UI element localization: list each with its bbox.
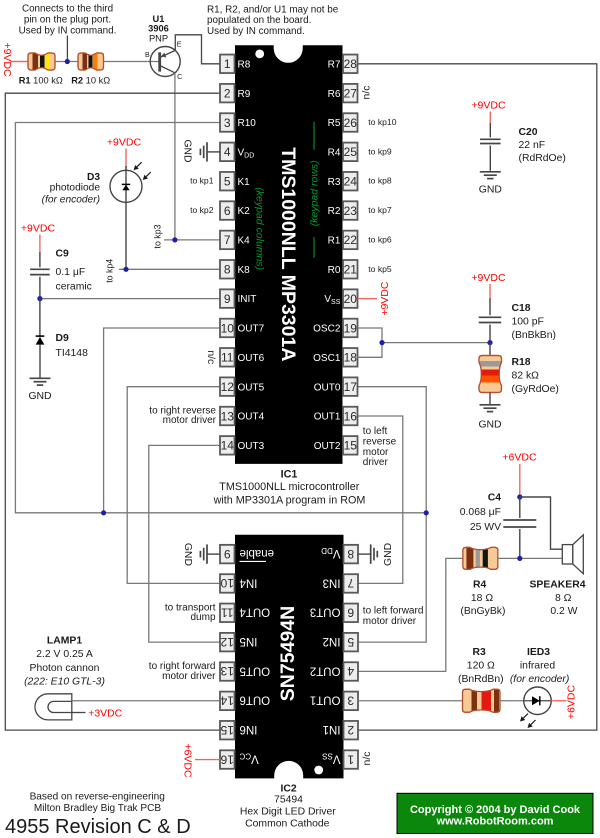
svg-text:pin on the plug port.: pin on the plug port.: [24, 15, 111, 26]
wire node to speaker top: [520, 497, 563, 549]
svg-text:to left: to left: [363, 426, 388, 437]
wire IC2 pin4 OUT2 to R4: [358, 558, 463, 671]
svg-text:IN3: IN3: [323, 576, 341, 588]
IC1 pin 1 R8: [220, 55, 251, 74]
svg-text:GND: GND: [182, 543, 193, 566]
svg-text:5: 5: [347, 635, 354, 649]
C18 value label: [512, 303, 556, 341]
svg-text:R18: R18: [512, 357, 531, 368]
svg-text:IN6: IN6: [240, 723, 258, 735]
ground (D9): [28, 378, 51, 402]
IC1 pin 26 R5: [328, 113, 358, 132]
svg-text:+9VDC: +9VDC: [471, 100, 506, 112]
svg-text:GND: GND: [478, 420, 501, 431]
IC2 label: [240, 783, 336, 829]
svg-text:IED3: IED3: [527, 647, 550, 658]
svg-text:K8: K8: [238, 265, 251, 276]
IC1 pin 11 OUT6: [220, 348, 265, 367]
svg-text:R6: R6: [328, 89, 341, 100]
svg-text:(BnBkBn): (BnBkBn): [512, 330, 556, 341]
svg-text:to kp4: to kp4: [105, 259, 115, 283]
svg-text:21: 21: [344, 263, 358, 277]
IC1 pin 17 OUT0: [314, 377, 358, 396]
svg-text:www.RobotRoom.com: www.RobotRoom.com: [436, 816, 554, 828]
IC2 pin 5 IN2: [323, 633, 358, 652]
note: reverse engineering credit: [30, 791, 165, 814]
wire lamp to +3VDC: [72, 712, 86, 714]
IC2 pin 16 VCC: [220, 750, 259, 769]
svg-text:motor driver: motor driver: [163, 415, 217, 426]
svg-text:OUT0: OUT0: [314, 382, 341, 393]
svg-text:14: 14: [221, 439, 235, 453]
wire IC1 pin14 OUT3 to IC2 pin12 IN5: [149, 445, 220, 642]
svg-text:ceramic: ceramic: [56, 282, 92, 293]
svg-text:Connects to the third: Connects to the third: [22, 3, 113, 14]
svg-text:IC2: IC2: [281, 783, 297, 794]
svg-text:10: 10: [221, 321, 235, 335]
svg-text:motor: motor: [363, 447, 389, 458]
svg-text:5: 5: [224, 175, 231, 189]
IC2 pin 13 OUT5: [220, 662, 270, 681]
svg-text:TMS1000NLL MP3301A: TMS1000NLL MP3301A: [277, 147, 299, 361]
svg-text:OUT1: OUT1: [314, 412, 341, 423]
svg-text:0.068 μF: 0.068 μF: [460, 507, 501, 518]
ground (C20): [479, 172, 502, 196]
note to left forward motor driver (IC2 pin 6): [363, 605, 424, 626]
IC1 pin 15 OUT2: [314, 436, 358, 455]
svg-text:(GyRdOe): (GyRdOe): [512, 384, 559, 395]
svg-text:B: B: [145, 52, 150, 59]
wire IC1 pin16 OUT1 to IC2 pin7 IN3: [358, 416, 403, 583]
svg-text:22: 22: [344, 233, 358, 247]
note to transport dump (IC2 pin 11): [165, 602, 216, 623]
wire R3 to IED3: [500, 700, 524, 702]
wire IC1 pin17 OUT0 to IC2 pin5 IN2: [358, 387, 427, 642]
svg-text:OUT3: OUT3: [238, 441, 265, 452]
resistor R2: [78, 53, 104, 70]
R2 value label: [71, 75, 110, 85]
IC1 pin 24 R3: [328, 172, 358, 191]
IC1 pin 19 OSC2: [313, 319, 357, 338]
IC1 pin 16 OUT1: [314, 407, 358, 426]
svg-text:PNP: PNP: [149, 33, 168, 43]
capacitor C9: [30, 269, 50, 274]
svg-text:3: 3: [347, 694, 354, 708]
svg-text:GND: GND: [181, 139, 192, 162]
svg-text:15: 15: [220, 723, 234, 737]
svg-text:IC1: IC1: [281, 468, 298, 480]
svg-text:K1: K1: [238, 177, 251, 188]
svg-text:22 nF: 22 nF: [519, 140, 546, 151]
svg-text:to kp2: to kp2: [190, 205, 214, 215]
svg-text:D3: D3: [87, 172, 100, 183]
ground (R18): [478, 405, 501, 431]
svg-text:U1: U1: [153, 14, 165, 24]
wire IC1 pin3 R10 to bus: [15, 123, 426, 513]
svg-text:R3: R3: [473, 647, 487, 658]
svg-text:3: 3: [224, 116, 231, 130]
C9 value label: [56, 249, 92, 293]
svg-text:n/c: n/c: [362, 752, 373, 766]
svg-text:+9VDC: +9VDC: [21, 223, 56, 235]
svg-text:to kp8: to kp8: [368, 176, 392, 186]
svg-text:R4: R4: [473, 580, 487, 591]
svg-text:to kp5: to kp5: [368, 264, 392, 274]
svg-text:75494: 75494: [274, 795, 303, 806]
IC1 pin 25 R4: [328, 143, 358, 162]
IC2 pin 15 IN6: [220, 721, 257, 740]
U1 label: [148, 14, 169, 44]
svg-text:C: C: [177, 74, 182, 81]
svg-text:to kp10: to kp10: [368, 117, 396, 127]
wire node to R18: [489, 343, 491, 356]
IC1 pin 5 K1: [220, 172, 250, 191]
svg-text:n/c: n/c: [205, 350, 216, 364]
svg-text:R5: R5: [328, 118, 341, 129]
svg-text:dump: dump: [190, 612, 215, 623]
wire OSC bracket pins 18/19: [358, 328, 491, 357]
wire U1 collector down to kp3 node: [174, 73, 176, 240]
R18 value label: [512, 357, 559, 395]
svg-text:13: 13: [221, 409, 235, 423]
svg-text:2.2 V 0.25 A: 2.2 V 0.25 A: [36, 649, 93, 660]
svg-text:23: 23: [344, 204, 358, 218]
wire +9VDC to D3: [125, 149, 127, 171]
note to right reverse motor driver (IC1 pin 13): [149, 406, 216, 427]
svg-text:motor driver: motor driver: [162, 671, 216, 682]
svg-text:INIT: INIT: [238, 294, 257, 305]
IC1 pin 21 R0: [328, 260, 358, 279]
svg-text:+6VDC: +6VDC: [182, 743, 194, 778]
svg-text:25: 25: [344, 145, 358, 159]
photodiode D3: [110, 162, 151, 270]
svg-text:24: 24: [344, 175, 358, 189]
svg-text:26: 26: [344, 116, 358, 130]
R1 value label: [19, 75, 63, 85]
IC2 pin 11 OUT4: [220, 604, 270, 623]
svg-text:Used by IN command.: Used by IN command.: [207, 26, 305, 37]
svg-text:GND: GND: [28, 391, 51, 402]
svg-text:120 Ω: 120 Ω: [467, 660, 495, 671]
svg-text:C9: C9: [56, 249, 70, 260]
IC2 pin 8 VDD: [321, 545, 358, 564]
node R4/C4/speaker: [517, 556, 522, 561]
svg-text:Based on reverse-engineering: Based on reverse-engineering: [30, 791, 165, 802]
wire +9VDC stub (IC1 pin 20 VSS): [358, 298, 378, 300]
resistor R4: [463, 547, 498, 569]
svg-text:IN1: IN1: [323, 723, 341, 735]
svg-text:19: 19: [344, 321, 358, 335]
C20 value label: [519, 127, 566, 164]
D3 label: [42, 172, 101, 206]
svg-text:R3: R3: [328, 177, 341, 188]
svg-text:R1 100 kΩ: R1 100 kΩ: [19, 75, 63, 85]
svg-text:OSC1: OSC1: [313, 353, 341, 364]
svg-text:SN75494N: SN75494N: [277, 606, 299, 701]
wire node to D9: [39, 299, 41, 336]
svg-text:R10: R10: [238, 118, 257, 129]
note: plug-port annotation: [19, 3, 117, 36]
svg-text:C20: C20: [519, 127, 538, 138]
node C9/D9/INIT: [37, 296, 42, 301]
svg-text:(for encoder): (for encoder): [42, 194, 100, 205]
svg-text:OUT2: OUT2: [314, 441, 341, 452]
node kp4 / wire D3 to IC1 pin 8: [119, 267, 220, 272]
svg-text:D9: D9: [56, 333, 70, 344]
svg-text:8 Ω: 8 Ω: [555, 593, 572, 604]
IC2 pin 9 enable: [220, 545, 274, 564]
resistor R18: [479, 356, 502, 393]
svg-text:infrared: infrared: [520, 660, 555, 671]
wire +9VDC to C20: [489, 112, 491, 138]
svg-text:OSC2: OSC2: [313, 324, 341, 335]
wire R18 to ground: [489, 393, 491, 405]
svg-text:20: 20: [344, 292, 358, 306]
resistor R1: [28, 53, 55, 70]
svg-text:4955 Revision C & D: 4955 Revision C & D: [5, 816, 191, 838]
svg-text:11: 11: [221, 351, 234, 365]
svg-text:12: 12: [221, 380, 235, 394]
svg-text:IN2: IN2: [323, 635, 341, 647]
wire +9VDC to C18: [489, 284, 491, 315]
svg-text:+9VDC: +9VDC: [1, 42, 13, 77]
svg-text:+3VDC: +3VDC: [88, 708, 122, 719]
svg-text:R8: R8: [238, 59, 251, 70]
svg-text:OUT5: OUT5: [238, 382, 265, 393]
IC2 SN75494N hex digit LED driver body: [235, 535, 344, 779]
svg-text:OUT5: OUT5: [240, 664, 271, 676]
svg-text:82 kΩ: 82 kΩ: [512, 370, 540, 381]
capacitor C20: [480, 139, 501, 171]
svg-text:7: 7: [347, 576, 354, 590]
note: U1 population annotation: [207, 5, 339, 37]
note to right forward motor driver (IC2 pin 13): [149, 661, 216, 682]
svg-text:K2: K2: [238, 206, 251, 217]
node C18/R18: [487, 340, 492, 345]
IC2 pin 7 IN3: [323, 574, 358, 593]
svg-text:driver: driver: [363, 457, 389, 468]
R3 value label: [458, 647, 504, 685]
svg-text:SPEAKER4: SPEAKER4: [529, 580, 585, 591]
C4 value label: [460, 493, 501, 533]
svg-text:R1, R2, and/or U1 may not be: R1, R2, and/or U1 may not be: [207, 5, 339, 16]
svg-text:OUT6: OUT6: [238, 353, 265, 364]
IC1 pin 6 K2: [220, 201, 250, 220]
svg-text:C4: C4: [488, 493, 502, 504]
svg-text:7: 7: [224, 233, 231, 247]
svg-text:to kp6: to kp6: [368, 234, 392, 244]
svg-text:to kp9: to kp9: [368, 146, 392, 156]
node kp3 / wire to IC1 pin 7: [164, 237, 220, 242]
IC2 pin 1 VSS: [322, 750, 358, 769]
svg-text:16: 16: [220, 752, 234, 766]
LED IED3: [520, 687, 551, 728]
svg-text:8: 8: [347, 547, 354, 561]
wire C9 to node: [39, 277, 41, 299]
svg-text:13: 13: [220, 664, 234, 678]
svg-text:16: 16: [344, 409, 358, 423]
svg-text:Used by IN command.: Used by IN command.: [19, 26, 117, 37]
svg-text:R4: R4: [328, 147, 341, 158]
wire IC2 pin3 OUT1 to R3: [358, 700, 463, 702]
wire +6VDC stub (IC2 pin 16 VCC): [195, 759, 220, 761]
wire IC1 pin2 R9 to IC2 pin15 IN6 (left edge): [5, 93, 220, 730]
svg-text:OUT2: OUT2: [310, 664, 341, 676]
capacitor C18: [479, 317, 502, 342]
R4 value label: [460, 580, 505, 617]
svg-text:6: 6: [224, 204, 231, 218]
svg-text:Milton Bradley Big Trak PCB: Milton Bradley Big Trak PCB: [34, 803, 162, 814]
svg-text:to left forward: to left forward: [363, 605, 424, 616]
svg-text:27: 27: [344, 86, 358, 100]
IC1 pin 23 R2: [328, 201, 358, 220]
svg-text:OUT6: OUT6: [240, 694, 271, 706]
svg-text:with MP3301A program in ROM: with MP3301A program in ROM: [213, 495, 366, 507]
IC1 label: [213, 468, 366, 506]
svg-text:K4: K4: [238, 236, 251, 247]
svg-text:R1: R1: [328, 236, 341, 247]
svg-text:(for encoder): (for encoder): [510, 674, 569, 685]
svg-text:(222: E10 GTL-3): (222: E10 GTL-3): [24, 676, 105, 687]
IC2 pin 12 IN5: [220, 633, 257, 652]
svg-text:8: 8: [224, 263, 231, 277]
IC2 pin 14 OUT6: [220, 692, 270, 711]
IC1 pin 7 K4: [220, 231, 250, 250]
diode D9: [36, 336, 45, 378]
IC1 pin 14 OUT3: [220, 436, 265, 455]
svg-text:15: 15: [344, 439, 358, 453]
svg-text:R0: R0: [328, 265, 341, 276]
svg-text:18 Ω: 18 Ω: [471, 593, 493, 604]
svg-text:TI4148: TI4148: [56, 348, 89, 359]
node OUT0/bus: [424, 510, 429, 515]
svg-text:IN4: IN4: [239, 576, 258, 588]
node: plug-port tap junction: [65, 59, 70, 64]
svg-text:R2 10 kΩ: R2 10 kΩ: [71, 75, 110, 85]
D9 label: [56, 333, 89, 359]
wire IC1 pin28 R7 to IC2 pin2 IN1 (right edge): [358, 64, 597, 730]
svg-text:17: 17: [344, 380, 358, 394]
capacitor C4: [503, 497, 536, 558]
node OUT7/bus: [101, 510, 106, 515]
wire +9VDC to C9: [39, 235, 41, 253]
svg-text:3906: 3906: [148, 24, 169, 34]
IED3 label: [510, 647, 569, 685]
ground (IC2 pin 9 enable): [182, 543, 220, 566]
IC1 TMS1000NLL MP3301A microcontroller body: [235, 45, 343, 464]
svg-text:4: 4: [347, 664, 354, 678]
svg-text:to kp3: to kp3: [152, 224, 162, 248]
svg-text:to kp7: to kp7: [368, 205, 392, 215]
svg-text:+9VDC: +9VDC: [379, 281, 391, 316]
svg-text:n/c: n/c: [361, 86, 372, 100]
IC1 pin 4 VDD: [220, 143, 254, 162]
ground (IC1 pin 4 VDD): [181, 139, 220, 162]
wire R2 to U1 base: [104, 61, 159, 63]
SPEAKER4 label: [529, 580, 585, 617]
svg-text:photodiode: photodiode: [50, 183, 101, 194]
svg-text:motor driver: motor driver: [363, 616, 417, 627]
svg-text:OUT1: OUT1: [310, 694, 341, 706]
IC1 pin 3 R10: [220, 113, 256, 132]
transistor U1: [145, 42, 182, 82]
svg-text:100 pF: 100 pF: [512, 316, 544, 327]
wire +9VDC to R1: [11, 61, 29, 63]
svg-text:0.2 W: 0.2 W: [550, 606, 577, 617]
wire IC1 pin10 OUT7 to bus: [104, 328, 220, 513]
svg-text:+9VDC: +9VDC: [471, 272, 506, 284]
svg-text:14: 14: [220, 694, 234, 708]
svg-text:GND: GND: [383, 543, 394, 566]
note to left reverse motor driver (IC1 pin 16): [363, 426, 397, 468]
ground (IC2 pin 8 VDD): [358, 543, 395, 566]
svg-text:LAMP1: LAMP1: [47, 635, 82, 646]
svg-text:(RdRdOe): (RdRdOe): [519, 153, 566, 164]
svg-text:0.1 μF: 0.1 μF: [56, 267, 86, 278]
copyright box: [397, 793, 593, 833]
IC1 annotation (keypad rows): [308, 122, 320, 258]
speaker SPEAKER4: [562, 535, 583, 574]
IC1 pin 18 OSC1: [313, 348, 357, 367]
resistor R3: [463, 689, 501, 712]
svg-text:reverse: reverse: [363, 436, 397, 447]
svg-text:10: 10: [220, 576, 234, 590]
wire node to IC1 pin 9 INIT: [40, 298, 220, 300]
svg-text:4: 4: [224, 145, 231, 159]
svg-text:(BnGyBk): (BnGyBk): [460, 606, 505, 617]
svg-text:+6VDC: +6VDC: [502, 452, 537, 464]
IC1 pin 8 K8: [220, 260, 250, 279]
IC1 pin 22 R1: [328, 231, 358, 250]
wire U1 emitter to IC1 pin 1: [175, 35, 220, 64]
svg-text:Copyright © 2004 by David Cook: Copyright © 2004 by David Cook: [410, 804, 581, 816]
svg-text:12: 12: [220, 635, 234, 649]
svg-text:(keypad columns): (keypad columns): [253, 187, 265, 270]
wire annotation pointer to node: [66, 36, 68, 60]
svg-text:populated on the board.: populated on the board.: [207, 15, 311, 26]
svg-text:Common Cathode: Common Cathode: [245, 819, 330, 830]
wire lamp to IC2 pin 14 OUT6: [72, 700, 220, 702]
IC1 pin 12 OUT5: [220, 377, 265, 396]
svg-text:11: 11: [221, 606, 234, 620]
svg-text:OUT4: OUT4: [239, 606, 270, 618]
svg-text:Hex Digit LED Driver: Hex Digit LED Driver: [240, 807, 336, 818]
svg-text:R9: R9: [238, 89, 251, 100]
svg-text:1: 1: [224, 57, 231, 71]
IC2 pin 2 IN1: [323, 721, 358, 740]
lamp LAMP1: [35, 694, 72, 720]
svg-text:25 WV: 25 WV: [470, 522, 501, 533]
svg-text:(keypad rows): (keypad rows): [308, 160, 320, 226]
svg-text:2: 2: [347, 723, 354, 737]
IC2 pin 10 IN4: [220, 574, 257, 593]
svg-text:6: 6: [347, 606, 354, 620]
svg-text:enable: enable: [240, 547, 275, 559]
IC1 pin 9 INIT: [220, 289, 256, 308]
svg-text:IN5: IN5: [240, 635, 258, 647]
IC1 pin 2 R9: [220, 84, 251, 103]
wire IC1 pin12 OUT5 to IC2 pin10 IN4: [127, 387, 220, 584]
svg-text:to kp1: to kp1: [190, 176, 214, 186]
wire +6VDC to node: [519, 464, 521, 497]
svg-text:OUT4: OUT4: [238, 412, 265, 423]
svg-text:TMS1000NLL microcontroller: TMS1000NLL microcontroller: [219, 481, 359, 493]
wire IED3 to +6VDC: [551, 700, 566, 702]
svg-text:18: 18: [344, 351, 358, 365]
IC1 pin 28 R7: [328, 55, 358, 74]
svg-text:GND: GND: [479, 184, 502, 195]
svg-text:9: 9: [224, 292, 231, 306]
